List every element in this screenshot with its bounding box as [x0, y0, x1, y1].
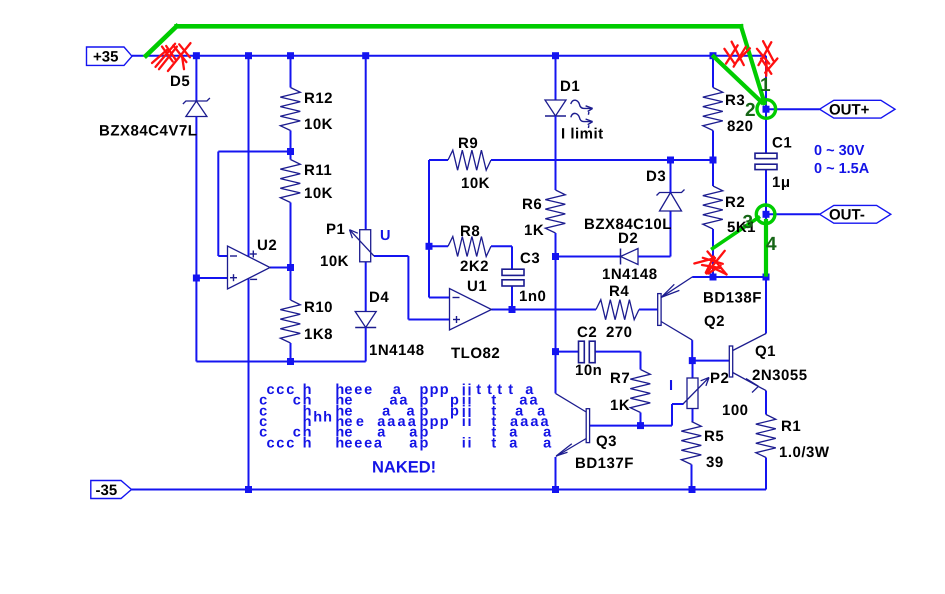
svg-text:R10: R10	[304, 299, 333, 316]
svg-text:p: p	[450, 403, 459, 419]
svg-text:OUT-: OUT-	[829, 207, 865, 224]
svg-text:39: 39	[706, 454, 724, 471]
svg-text:R6: R6	[522, 196, 542, 213]
svg-text:R1: R1	[781, 418, 801, 435]
svg-text:D4: D4	[369, 289, 389, 306]
svg-text:c: c	[267, 382, 275, 398]
svg-text:a: a	[387, 414, 396, 430]
svg-text:C3: C3	[520, 250, 540, 267]
svg-text:R3: R3	[725, 92, 745, 109]
svg-text:R11: R11	[304, 162, 332, 179]
svg-text:i: i	[468, 414, 472, 430]
svg-text:c: c	[286, 435, 294, 451]
svg-text:h: h	[335, 435, 344, 451]
svg-text:a: a	[520, 414, 529, 430]
svg-text:1n0: 1n0	[519, 288, 546, 305]
svg-text:c: c	[276, 435, 284, 451]
svg-text:10K: 10K	[461, 175, 490, 192]
svg-text:D2: D2	[618, 230, 638, 247]
svg-text:D3: D3	[646, 168, 666, 185]
svg-text:1K: 1K	[524, 222, 544, 239]
svg-text:e: e	[354, 435, 362, 451]
svg-text:R8: R8	[460, 223, 480, 240]
svg-text:a: a	[409, 435, 418, 451]
svg-text:1K8: 1K8	[304, 326, 333, 343]
svg-text:100: 100	[722, 402, 749, 419]
svg-text:i: i	[462, 435, 466, 451]
svg-text:1N4148: 1N4148	[602, 266, 658, 283]
svg-text:c: c	[293, 393, 301, 409]
svg-text:10K: 10K	[320, 253, 349, 270]
svg-text:h: h	[313, 410, 322, 426]
svg-text:i: i	[462, 414, 466, 430]
svg-text:a: a	[390, 393, 399, 409]
svg-text:I limit: I limit	[561, 126, 604, 143]
svg-text:P2: P2	[710, 370, 729, 387]
svg-text:10n: 10n	[575, 362, 602, 379]
svg-text:-35: -35	[96, 482, 118, 499]
svg-text:h: h	[323, 410, 332, 426]
svg-text:OUT+: OUT+	[829, 102, 870, 119]
svg-text:p: p	[430, 414, 439, 430]
svg-text:e: e	[356, 414, 364, 430]
svg-text:2K2: 2K2	[460, 258, 489, 275]
svg-text:4: 4	[766, 234, 777, 255]
svg-text:Q3: Q3	[596, 433, 617, 450]
svg-text:0 ~ 1.5A: 0 ~ 1.5A	[814, 161, 870, 177]
svg-text:1μ: 1μ	[772, 174, 791, 191]
svg-text:10K: 10K	[304, 116, 333, 133]
svg-text:e: e	[364, 435, 372, 451]
svg-text:0 ~ 30V: 0 ~ 30V	[814, 143, 865, 159]
svg-text:U2: U2	[257, 237, 277, 254]
svg-text:p: p	[430, 382, 439, 398]
svg-text:t: t	[476, 382, 481, 398]
svg-text:e: e	[344, 435, 352, 451]
svg-text:1.0/3W: 1.0/3W	[779, 444, 830, 461]
svg-text:D5: D5	[170, 73, 190, 90]
svg-text:U1: U1	[467, 278, 487, 295]
svg-text:a: a	[398, 414, 407, 430]
svg-text:a: a	[374, 435, 383, 451]
svg-text:C2: C2	[577, 324, 597, 341]
svg-text:U: U	[380, 228, 390, 244]
svg-text:p: p	[440, 414, 449, 430]
svg-text:h: h	[303, 435, 312, 451]
svg-text:1: 1	[760, 75, 771, 96]
svg-text:TLO82: TLO82	[451, 345, 500, 362]
svg-text:p: p	[440, 382, 449, 398]
svg-text:3: 3	[743, 212, 754, 233]
svg-text:R9: R9	[458, 135, 478, 152]
svg-text:I: I	[669, 378, 673, 394]
svg-text:t: t	[491, 435, 496, 451]
svg-text:BD137F: BD137F	[575, 455, 634, 472]
svg-text:R5: R5	[704, 428, 724, 445]
svg-text:a: a	[530, 414, 539, 430]
svg-text:R2: R2	[725, 194, 745, 211]
svg-text:t: t	[508, 382, 513, 398]
svg-text:Q2: Q2	[704, 313, 725, 330]
svg-text:P1: P1	[326, 221, 345, 238]
svg-text:BD138F: BD138F	[703, 290, 762, 307]
svg-text:c: c	[276, 382, 284, 398]
svg-text:+35: +35	[93, 49, 118, 66]
svg-text:C1: C1	[772, 135, 792, 152]
svg-text:1K: 1K	[610, 397, 630, 414]
svg-text:p: p	[420, 435, 429, 451]
svg-text:NAKED!: NAKED!	[372, 459, 436, 477]
svg-text:c: c	[267, 435, 275, 451]
svg-text:R12: R12	[304, 90, 333, 107]
svg-text:e: e	[364, 382, 372, 398]
svg-text:R4: R4	[609, 283, 629, 300]
svg-text:1N4148: 1N4148	[369, 342, 425, 359]
svg-text:a: a	[509, 435, 518, 451]
svg-text:Q1: Q1	[755, 343, 776, 360]
svg-text:2: 2	[745, 100, 756, 121]
svg-text:t: t	[497, 382, 502, 398]
svg-text:10K: 10K	[304, 185, 333, 202]
svg-text:R7: R7	[610, 370, 630, 387]
svg-text:2N3055: 2N3055	[752, 367, 808, 384]
svg-text:e: e	[354, 382, 362, 398]
svg-text:270: 270	[606, 324, 633, 341]
svg-text:i: i	[468, 435, 472, 451]
svg-text:BZX84C4V7L: BZX84C4V7L	[99, 123, 197, 140]
svg-text:D1: D1	[560, 78, 580, 95]
svg-text:a: a	[543, 435, 552, 451]
